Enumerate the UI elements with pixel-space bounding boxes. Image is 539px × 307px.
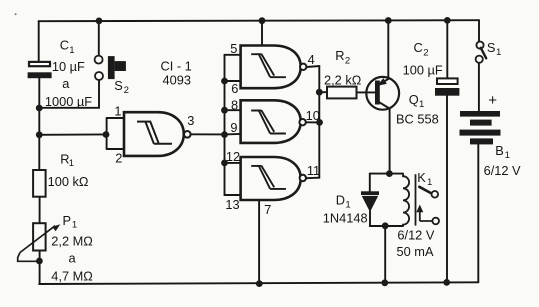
- svg-text:5: 5: [230, 41, 237, 56]
- svg-text:K: K: [417, 170, 426, 185]
- svg-text:10 µF: 10 µF: [52, 59, 85, 74]
- svg-text:Q: Q: [409, 92, 419, 107]
- svg-text:7: 7: [264, 202, 271, 217]
- svg-text:2: 2: [115, 150, 122, 165]
- svg-text:2: 2: [423, 47, 428, 58]
- svg-text:100 µF: 100 µF: [403, 63, 443, 78]
- svg-text:CI - 1: CI - 1: [161, 58, 192, 73]
- svg-text:D: D: [336, 193, 345, 208]
- svg-text:11: 11: [307, 163, 320, 178]
- svg-text:BC 558: BC 558: [396, 112, 439, 127]
- svg-text:1: 1: [69, 158, 74, 169]
- svg-text:2: 2: [124, 85, 129, 96]
- svg-text:1: 1: [114, 104, 121, 119]
- svg-text:1: 1: [505, 150, 510, 161]
- svg-text:2,2 MΩ: 2,2 MΩ: [51, 233, 93, 248]
- svg-text:1: 1: [496, 47, 501, 58]
- svg-text:1: 1: [345, 200, 350, 211]
- svg-text:C: C: [60, 38, 69, 53]
- svg-text:B: B: [495, 143, 504, 158]
- svg-text:4093: 4093: [163, 72, 191, 87]
- svg-text:2,2 kΩ: 2,2 kΩ: [324, 72, 362, 87]
- svg-text:+: +: [488, 92, 497, 109]
- svg-text:2: 2: [345, 55, 350, 66]
- svg-text:1: 1: [72, 220, 77, 231]
- svg-text:8: 8: [231, 97, 238, 112]
- svg-text:100 kΩ: 100 kΩ: [48, 174, 89, 189]
- svg-text:50 mA: 50 mA: [397, 244, 434, 259]
- svg-text:1: 1: [69, 45, 74, 56]
- svg-text:C: C: [414, 40, 423, 55]
- svg-text:12: 12: [226, 149, 240, 164]
- svg-text:P: P: [63, 213, 72, 228]
- svg-text:R: R: [335, 48, 344, 63]
- svg-text:3: 3: [187, 113, 194, 128]
- svg-text:S: S: [487, 40, 496, 55]
- svg-text:1N4148: 1N4148: [323, 211, 368, 226]
- svg-text:6/12 V: 6/12 V: [484, 163, 521, 178]
- svg-text:13: 13: [225, 197, 239, 212]
- svg-text:1: 1: [419, 99, 424, 110]
- svg-text:9: 9: [230, 120, 237, 135]
- svg-text:S: S: [114, 78, 123, 93]
- svg-text:a: a: [62, 76, 70, 91]
- svg-text:4: 4: [308, 52, 315, 67]
- svg-text:10: 10: [306, 108, 320, 123]
- svg-text:6/12 V: 6/12 V: [397, 227, 434, 242]
- svg-text:a: a: [69, 251, 77, 266]
- svg-text:6: 6: [231, 81, 238, 96]
- svg-text:1000 µF: 1000 µF: [45, 94, 92, 109]
- svg-text:4,7 MΩ: 4,7 MΩ: [51, 268, 93, 283]
- svg-text:1: 1: [427, 177, 432, 188]
